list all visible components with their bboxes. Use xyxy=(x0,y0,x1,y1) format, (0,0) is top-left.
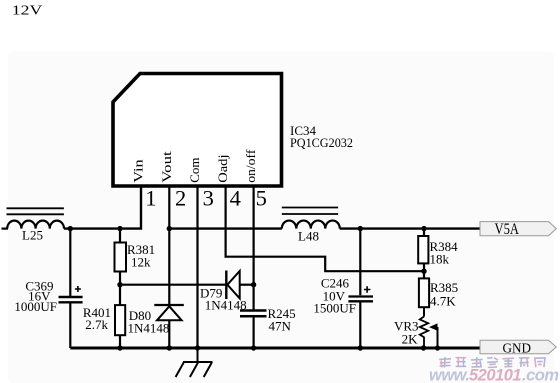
svg-text:1500UF: 1500UF xyxy=(313,301,356,316)
inductor L25 xyxy=(7,221,64,229)
svg-text:2: 2 xyxy=(175,185,186,210)
svg-text:18k: 18k xyxy=(430,252,450,267)
svg-text:5: 5 xyxy=(256,185,267,210)
svg-text:Oadj: Oadj xyxy=(215,155,230,183)
svg-text:1000UF: 1000UF xyxy=(14,299,57,314)
node D80 bottom xyxy=(167,345,172,350)
svg-text:2.7k: 2.7k xyxy=(85,317,108,332)
node VR3 wiper bottom xyxy=(435,345,440,350)
svg-text:.com: .com xyxy=(522,366,559,383)
node R245 bottom xyxy=(251,345,256,350)
wire pin5 on/off down xyxy=(253,186,255,311)
svg-text:V5A: V5A xyxy=(495,221,520,238)
wire Vout rail to L48 xyxy=(169,227,281,229)
node Oadj/R384/R385 junction xyxy=(421,269,426,274)
svg-text:1N4148: 1N4148 xyxy=(128,321,170,336)
node R381 top junction xyxy=(117,226,122,231)
wire pin2 Vout down to ground rail xyxy=(168,186,170,348)
capacitor C369 xyxy=(59,296,83,298)
svg-text:Vout: Vout xyxy=(159,151,174,183)
node GND output tag xyxy=(480,340,556,353)
ground rail xyxy=(70,346,480,349)
wire left input stub xyxy=(2,228,9,230)
resistor R384 xyxy=(423,229,425,236)
svg-text:www.: www. xyxy=(429,366,469,383)
diode D80 xyxy=(154,304,184,306)
svg-text:4.7K: 4.7K xyxy=(430,294,456,309)
svg-text:12k: 12k xyxy=(131,255,151,270)
wire pin1 down to Vin rail xyxy=(64,186,141,229)
svg-text:Vin: Vin xyxy=(131,159,146,183)
node C246 bottom xyxy=(358,345,363,350)
svg-text:L25: L25 xyxy=(22,228,43,243)
node R384 top junction xyxy=(421,226,426,231)
ground symbol xyxy=(197,348,199,362)
svg-text:4: 4 xyxy=(230,185,241,210)
watermark site name xyxy=(439,357,546,367)
potentiometer VR3 xyxy=(423,307,425,316)
node R381/R401/D79 junction xyxy=(117,282,122,287)
svg-text:3: 3 xyxy=(203,185,214,210)
svg-text:L48: L48 xyxy=(298,229,319,244)
op-amp/regulator IC34 PQ1CG2032 body xyxy=(113,74,282,187)
node V5A output tag xyxy=(480,222,556,236)
inductor L48 xyxy=(282,221,340,229)
svg-text:PQ1CG2032: PQ1CG2032 xyxy=(290,135,353,150)
svg-text:47N: 47N xyxy=(269,319,292,334)
svg-text:1: 1 xyxy=(145,185,156,210)
capacitor C246 xyxy=(348,295,373,297)
resistor R385 xyxy=(423,271,425,278)
capacitor R245 47N xyxy=(240,309,267,312)
svg-text:GND: GND xyxy=(503,341,532,356)
svg-text:on/off: on/off xyxy=(243,149,258,183)
svg-text:520101: 520101 xyxy=(469,366,521,383)
svg-text:2K: 2K xyxy=(402,332,419,347)
resistor R401 xyxy=(119,285,121,305)
wire C246 branch xyxy=(359,229,361,296)
node VR3 bottom xyxy=(421,345,426,350)
resistor R381 xyxy=(119,229,121,243)
wire V5A rail xyxy=(340,227,480,229)
wire junction to D79 cathode xyxy=(120,284,226,286)
wire pin4 Oadj to divider junction xyxy=(226,186,424,271)
svg-text:Com: Com xyxy=(187,158,202,183)
node C246 top junction xyxy=(358,226,363,231)
svg-text:12V: 12V xyxy=(12,2,43,17)
node C369 branch junction xyxy=(68,226,73,231)
node pin2 Vout rail junction xyxy=(167,226,172,231)
node R401 bottom xyxy=(117,345,122,350)
wire pin3 Com down xyxy=(196,186,198,348)
node Com ground junction xyxy=(195,345,200,350)
wire C369 branch down xyxy=(69,229,71,296)
diode D79 xyxy=(225,271,227,300)
